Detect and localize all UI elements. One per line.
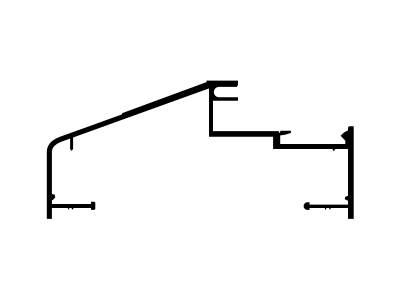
glazing wedge on right wall (341, 130, 349, 145)
bottom right arm end cap (304, 202, 310, 210)
serrations under left arm (68, 208, 74, 210)
left wall and sloped roof flange (47, 81, 210, 219)
right wall (348, 126, 354, 219)
top screw-channel block with middle shelf, step, hook flag and bottom shelf (207, 81, 349, 149)
drip tick on roof underside (70, 136, 73, 151)
bottom left arm (51, 204, 92, 208)
bottom right arm (308, 205, 348, 208)
bottom left arm end cap (91, 202, 95, 210)
serrations under right arm (325, 208, 331, 210)
tooth on left wall (52, 194, 56, 201)
serration under bottom shelf (332, 149, 335, 152)
tooth on right wall (345, 196, 348, 201)
